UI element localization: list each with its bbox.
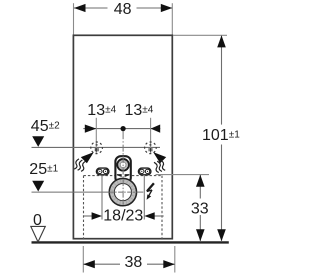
drain axis tick right — [137, 191, 143, 193]
extension line left of width dim — [73, 3, 75, 34]
arrowhead 18/23 right — [144, 212, 154, 220]
icon inside right dashed circle — [149, 144, 153, 151]
fixing oval right — [138, 168, 151, 175]
floor line — [32, 241, 229, 243]
level arrow 25 — [32, 181, 44, 192]
extension line top right for height dim — [173, 34, 227, 36]
icon inside left dashed circle — [95, 144, 99, 151]
svg-text:18/23: 18/23 — [103, 207, 143, 224]
fixing screws right — [140, 169, 144, 173]
flash arrowhead — [147, 194, 152, 199]
extension line right 13 — [150, 118, 152, 153]
water squiggle left — [74, 159, 86, 171]
dimension line 38 — [83, 263, 120, 265]
arrowhead 33 top — [196, 175, 205, 187]
extension line 33 top — [156, 174, 210, 176]
electrical flash symbol — [147, 183, 154, 196]
dashed circle water connection left — [91, 142, 103, 154]
water supply ring outer — [117, 159, 129, 171]
dashed circle water connection right — [145, 142, 157, 154]
leader line right of 18/23 — [154, 215, 164, 217]
arrowhead top of 101 dim — [217, 35, 226, 47]
capsule valve wedge left — [117, 174, 122, 177]
dashed outline box top edge — [84, 175, 163, 177]
extension line right of width dim — [171, 3, 173, 34]
arrowhead 33 bottom — [196, 229, 205, 241]
drain pipe inner circle — [114, 184, 131, 201]
extension line left 13 — [95, 118, 97, 153]
water supply ring inner — [120, 162, 126, 168]
dimension line height 101 — [221, 36, 223, 125]
center reference dot — [121, 126, 126, 131]
extension line 38 left — [82, 246, 84, 273]
center line vertical — [122, 131, 124, 139]
extension line from left oval — [101, 175, 103, 220]
arrowhead 18/23 left — [92, 212, 102, 220]
module outline rectangle — [73, 35, 172, 238]
extension line from right oval — [143, 175, 145, 220]
arrowhead 13 right — [151, 125, 161, 133]
level line 25 / drain axis left part — [32, 191, 110, 193]
drain pipe annulus texture — [112, 181, 134, 203]
drain axis dash-dot through circle — [109, 191, 137, 193]
water squiggle right — [154, 160, 165, 172]
flush pipe capsule — [115, 156, 130, 183]
level arrow 45 — [32, 136, 44, 147]
arrowhead 38 right — [163, 260, 175, 268]
arrowhead left of 48 dim — [74, 4, 86, 12]
drain pipe outer circle — [109, 179, 136, 206]
water supply arrowhead left — [81, 152, 94, 163]
dashed outline box left edge — [83, 176, 85, 241]
dimension line width 48 — [74, 7, 108, 9]
arrowhead bottom of 101 dim — [217, 229, 226, 241]
svg-text:38: 38 — [125, 254, 143, 271]
dimension line 13/13 — [83, 128, 160, 130]
datum triangle 0 — [31, 226, 46, 242]
water supply ring gray — [119, 161, 127, 169]
capsule valve wedge right — [125, 174, 130, 177]
dimension line 33 — [199, 175, 201, 199]
arrowhead right of 48 dim — [161, 4, 173, 12]
svg-text:33: 33 — [191, 201, 209, 218]
extension line 38 right — [174, 246, 176, 273]
svg-text:48: 48 — [114, 1, 132, 18]
fixing oval left — [96, 168, 109, 175]
arrowhead 38 left — [83, 260, 95, 268]
arrowhead 13 left — [85, 125, 97, 133]
water supply arrowhead right — [153, 152, 166, 163]
dashed outline box right edge — [161, 176, 163, 241]
leader line left of 18/23 — [84, 215, 94, 217]
drain pipe gray annulus — [112, 181, 134, 203]
fixing screws left — [98, 169, 102, 173]
level line 45 — [32, 146, 161, 148]
